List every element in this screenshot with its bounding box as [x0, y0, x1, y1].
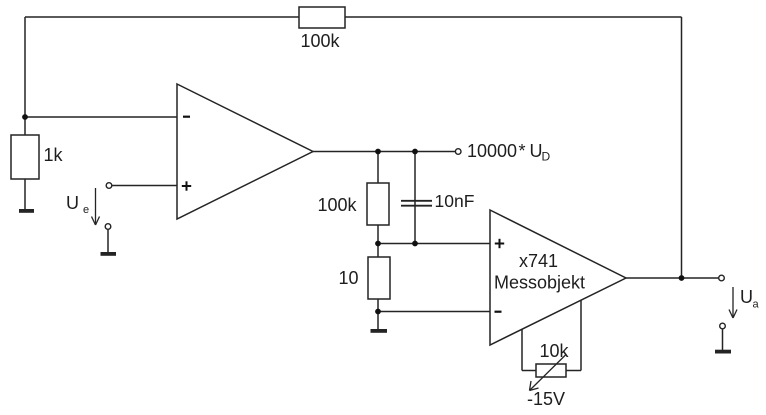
ground (below Ua terminal)	[715, 350, 731, 354]
svg-text:-15V: -15V	[527, 389, 565, 409]
svg-text:100k: 100k	[318, 195, 358, 215]
svg-text:10000: 10000	[467, 141, 517, 161]
wire left vertical from top to 1k	[24, 17, 26, 135]
svg-text:*: *	[519, 141, 526, 161]
node junction 10 resistor bottom	[375, 309, 381, 315]
svg-text:x741: x741	[519, 251, 558, 271]
wire 10 resistor bottom lead	[377, 299, 379, 312]
svg-text:U: U	[740, 287, 753, 307]
svg-text:U: U	[66, 193, 79, 213]
arrow Ua (output voltage)	[729, 287, 737, 318]
wire top feedback left segment	[25, 16, 299, 18]
capacitor C 10nF	[401, 201, 432, 206]
resistor 1k	[11, 135, 39, 179]
potentiometer wiper arrow to -15V	[530, 355, 567, 391]
svg-text:10: 10	[339, 268, 359, 288]
op-amp U2 x741 Messobjekt	[490, 210, 626, 345]
wire pot left horizontal	[522, 370, 536, 372]
potentiometer 10k body	[536, 364, 566, 377]
resistor 10	[368, 257, 390, 299]
op-amp2 plus input sign	[495, 239, 504, 248]
node junction op1 output / 100k	[375, 149, 381, 155]
resistor R 100k (top feedback)	[299, 7, 345, 28]
wire op-amp1 output	[313, 151, 455, 153]
wire Ua lower terminal to ground	[722, 329, 724, 350]
wire 1k to ground	[24, 179, 26, 209]
ground (below Ue terminal)	[101, 252, 117, 256]
wire inverting input	[25, 116, 177, 118]
svg-text:100k: 100k	[301, 31, 341, 51]
wire noninverting input	[112, 185, 177, 187]
svg-text:e: e	[83, 204, 89, 216]
wire 10 resistor top lead	[377, 244, 379, 258]
wire top feedback right segment	[345, 16, 682, 18]
svg-text:10k: 10k	[540, 341, 570, 361]
node junction output feedback	[679, 275, 685, 281]
terminal circle Ue top	[106, 183, 112, 189]
node junction at inverting input	[22, 114, 28, 120]
svg-text:a: a	[753, 299, 760, 311]
wire pot left vertical	[521, 329, 523, 370]
svg-text:1k: 1k	[44, 145, 64, 165]
ground (below 1k)	[19, 209, 34, 213]
wire op-amp2 output	[626, 277, 719, 279]
wire capacitor top lead	[414, 152, 416, 201]
wire Ue lower terminal to ground	[107, 229, 109, 252]
ground (below 10 resistor)	[371, 329, 388, 333]
op-amp2 minus input sign	[495, 311, 502, 313]
wire 10 resistor to ground	[377, 312, 379, 330]
wire capacitor bottom lead	[414, 200, 416, 244]
node junction op1 output / cap	[412, 149, 418, 155]
svg-text:Messobjekt: Messobjekt	[494, 273, 585, 293]
svg-text:10nF: 10nF	[435, 191, 475, 211]
wire pot right vertical	[580, 300, 582, 371]
wire 100k vertical bottom lead	[377, 225, 379, 244]
wire feedback vertical right	[681, 17, 683, 278]
svg-text:D: D	[542, 150, 551, 164]
op-amp U1 (left)	[177, 84, 313, 219]
wire pot right horizontal	[566, 370, 581, 372]
op-amp1 minus input sign	[183, 116, 190, 118]
arrow Ue (input voltage)	[92, 188, 100, 225]
wire middle row to op-amp2 plus	[378, 243, 490, 245]
wire 100k vertical top lead	[377, 152, 379, 184]
node junction 100k bottom	[375, 241, 381, 247]
terminal circle Ua bottom	[720, 323, 726, 329]
wire lower row to op-amp2 minus	[378, 311, 490, 313]
terminal circle Ue bottom	[105, 224, 111, 230]
resistor 100k (vertical)	[367, 183, 389, 225]
op-amp1 plus input sign	[182, 181, 191, 190]
terminal circle 10000*UD output	[455, 149, 461, 155]
terminal circle Ua top	[719, 275, 725, 281]
node junction cap bottom	[412, 241, 418, 247]
